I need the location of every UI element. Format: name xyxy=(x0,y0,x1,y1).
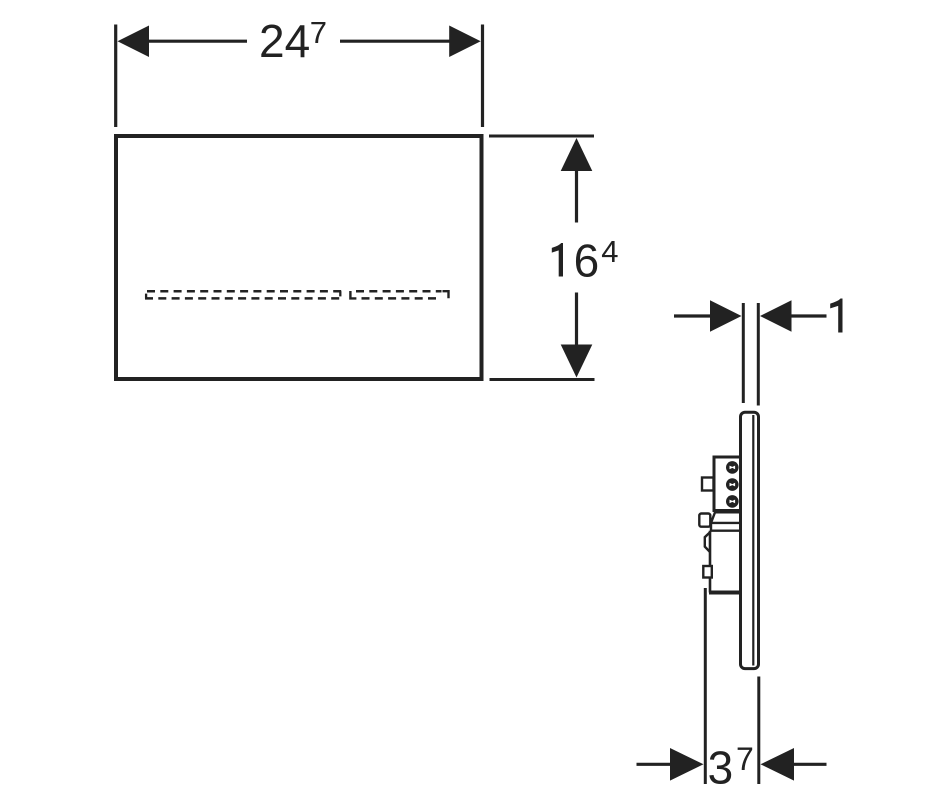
thickness dimension right arrowhead xyxy=(760,300,792,331)
side view middle mounting tab xyxy=(699,514,710,527)
svg-text:7: 7 xyxy=(736,741,754,777)
side view flange middle line xyxy=(711,522,741,524)
side view screw 3 slot xyxy=(730,500,736,504)
front view plate outline xyxy=(116,136,482,379)
left dashed button outline bottom edge xyxy=(145,297,342,300)
width dimension line right segment xyxy=(340,40,450,43)
svg-text:3: 3 xyxy=(708,742,734,794)
height dimension top extension line xyxy=(489,135,594,138)
height dimension bottom extension line xyxy=(490,378,595,381)
height dimension up arrowhead xyxy=(561,138,593,171)
side view screw 3 head xyxy=(726,495,739,508)
svg-text:4: 4 xyxy=(601,234,618,269)
side view upper mounting tab xyxy=(702,478,714,491)
left dashed button bottom-left corner tick xyxy=(145,294,147,299)
thickness dimension left extension line xyxy=(742,303,745,403)
thickness dimension right extension line xyxy=(757,303,760,406)
side view screw 2 head xyxy=(726,478,739,491)
width dimension right arrowhead xyxy=(449,26,481,58)
side view flange step upper line xyxy=(711,512,741,523)
thickness dimension right line xyxy=(792,314,827,317)
right dashed button bottom-left corner xyxy=(350,291,356,298)
side view mechanism lower housing box bottom edge xyxy=(709,591,741,595)
svg-text:24: 24 xyxy=(259,15,310,67)
depth dimension right extension line xyxy=(757,677,760,785)
depth dimension left extension line xyxy=(704,588,707,784)
side view plate body outline xyxy=(741,412,759,668)
thickness dimension left arrowhead xyxy=(710,300,742,331)
width dimension left extension line xyxy=(114,25,117,128)
right dashed button outline bottom edge xyxy=(362,297,442,300)
side view mechanism upper housing box xyxy=(714,457,741,511)
thickness dimension left line xyxy=(674,314,710,317)
side view screw 1 head xyxy=(726,461,739,474)
svg-text:7: 7 xyxy=(310,15,327,50)
side view lower mounting tab xyxy=(703,566,712,578)
depth dimension left line xyxy=(637,763,671,766)
side view mechanism lower housing box left edge xyxy=(709,531,712,593)
depth dimension right line xyxy=(794,763,827,766)
thickness dimension value 1 xyxy=(830,299,842,333)
height dimension line lower segment xyxy=(575,293,578,346)
height dimension line upper segment xyxy=(575,170,578,223)
depth dimension right arrowhead xyxy=(761,748,795,781)
right dashed button outline top edge xyxy=(356,290,442,293)
side view plate front face inner line xyxy=(752,415,754,666)
left dashed button outline top edge xyxy=(147,290,341,293)
side view screw 1 slot xyxy=(730,466,736,470)
side view lower hook clip xyxy=(705,532,711,552)
width dimension line left segment xyxy=(147,40,247,43)
side view flange lower line xyxy=(711,523,741,531)
depth dimension left arrowhead xyxy=(670,748,704,781)
width dimension right extension line xyxy=(481,25,484,128)
width dimension left arrowhead xyxy=(118,26,150,58)
side view screw 2 slot xyxy=(730,483,736,487)
right dashed button top-right corner xyxy=(443,291,449,298)
height dimension value digit 1 xyxy=(552,243,563,277)
svg-text:6: 6 xyxy=(574,235,600,287)
left dashed button top-right corner tick xyxy=(339,291,341,296)
height dimension down arrowhead xyxy=(561,345,593,378)
